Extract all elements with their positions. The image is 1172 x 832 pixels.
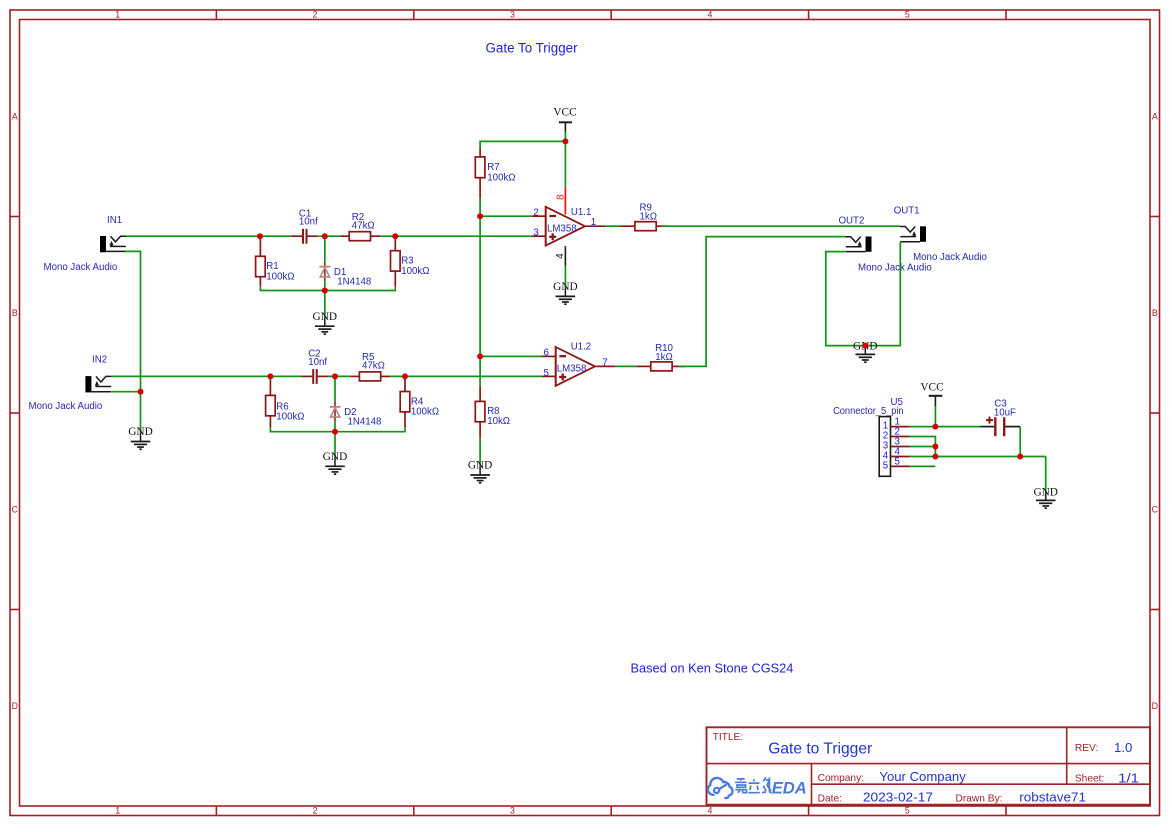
wire bottom rail row2 — [270, 428, 405, 432]
wire C3 down to pin4 net — [1019, 427, 1021, 457]
svg-text:Date:: Date: — [818, 793, 842, 804]
resistor R5 — [350, 352, 390, 381]
op-amp U1.1 LM358 — [532, 187, 605, 266]
svg-text:1: 1 — [591, 217, 596, 228]
node junction pin2 — [477, 213, 483, 219]
ground GND jacks-out — [853, 340, 877, 362]
node junction R4 top — [402, 373, 408, 379]
node junction out-gnd — [862, 343, 868, 349]
svg-text:2: 2 — [533, 207, 538, 218]
svg-text:U1.1: U1.1 — [571, 207, 591, 218]
wire IN1 sleeve down to IN2 sleeve — [125, 251, 140, 391]
svg-text:10nf: 10nf — [308, 357, 327, 368]
logo JLCEDA — [708, 777, 807, 798]
svg-text:C: C — [12, 505, 19, 515]
wire U1.2 out to R10 — [615, 365, 636, 367]
wire rail2 to GND — [334, 432, 336, 458]
svg-text:Company:: Company: — [818, 773, 864, 784]
wire node to U1.1 pin2 — [480, 215, 532, 217]
connector U5 Connector_5_pin — [833, 397, 910, 476]
wire D1 top — [324, 236, 326, 262]
svg-text:10uF: 10uF — [994, 408, 1016, 419]
node junction U5 pin1 VCC — [932, 424, 938, 430]
wire C2 to R5 — [328, 375, 351, 377]
svg-text:LM358: LM358 — [557, 364, 587, 375]
wire D1 to rail — [324, 281, 326, 290]
connector J-OUT2 mono jack — [839, 215, 932, 273]
wire center column to R8 — [479, 356, 481, 386]
svg-text:2: 2 — [313, 806, 318, 816]
svg-text:5: 5 — [895, 457, 901, 468]
svg-text:VCC: VCC — [920, 381, 943, 393]
wire U5 pin1 to C3 — [910, 426, 981, 428]
svg-text:100kΩ: 100kΩ — [411, 407, 439, 418]
svg-text:D: D — [1152, 701, 1158, 711]
node junction R3 top — [392, 233, 398, 239]
svg-text:Based on Ken Stone CGS24: Based on Ken Stone CGS24 — [631, 661, 794, 676]
svg-text:100kΩ: 100kΩ — [401, 266, 429, 277]
power VCC op-amp — [553, 107, 576, 132]
svg-text:A: A — [12, 112, 18, 122]
wire bottom rail row1 — [260, 287, 395, 291]
diode D1 1N4148 — [319, 262, 371, 288]
node junction R6 top — [267, 373, 273, 379]
wire node to U1.2 pin6 — [480, 355, 542, 357]
svg-text:OUT2: OUT2 — [839, 215, 865, 226]
svg-text:Mono Jack Audio: Mono Jack Audio — [858, 263, 932, 274]
wire U5 pin5 stub — [910, 465, 936, 467]
wire VCC to U1.1 pin8 — [564, 132, 566, 187]
svg-text:100kΩ: 100kΩ — [266, 272, 294, 283]
node junction C3-gnd net — [1017, 454, 1023, 460]
svg-text:100kΩ: 100kΩ — [487, 173, 515, 184]
resistor R8 — [475, 386, 510, 437]
wire R2 to U1.1 pin3 — [380, 235, 532, 237]
resistor R2 — [340, 212, 380, 241]
node junction R1 top — [257, 233, 263, 239]
svg-text:1.0: 1.0 — [1114, 740, 1132, 755]
ground GND connector — [1033, 486, 1057, 508]
svg-text:1/1: 1/1 — [1118, 772, 1139, 786]
ground GND U1.1 — [553, 281, 577, 304]
svg-text:4: 4 — [707, 10, 712, 20]
wire R5 to U1.2 pin5 — [390, 375, 542, 377]
capacitor C2 — [301, 349, 328, 384]
svg-text:VCC: VCC — [553, 107, 576, 119]
svg-text:4: 4 — [555, 253, 566, 259]
wire OUT2 sleeve to GND — [826, 252, 866, 346]
svg-text:1: 1 — [115, 10, 120, 20]
resistor R3 — [391, 236, 430, 286]
wire R7 to pin2 node — [479, 198, 481, 216]
wire U5 pin2 down — [910, 437, 936, 457]
node junction U5 pin3 — [932, 444, 938, 450]
svg-text:3: 3 — [533, 228, 539, 239]
svg-text:Drawn By:: Drawn By: — [956, 794, 1003, 805]
svg-text:TITLE:: TITLE: — [713, 732, 744, 743]
svg-text:4: 4 — [707, 806, 712, 816]
wire U5 pin4 to GND — [910, 456, 1046, 458]
ground GND row2 — [323, 451, 347, 474]
node junction rail2-GND — [332, 429, 338, 435]
wire U5 pin3 — [910, 446, 936, 448]
svg-text:Sheet:: Sheet: — [1075, 774, 1104, 785]
wire to GND connector — [1045, 457, 1047, 492]
svg-text:B: B — [12, 308, 18, 318]
wire D2 to rail — [334, 421, 336, 431]
svg-text:C: C — [1152, 505, 1159, 515]
svg-text:47kΩ: 47kΩ — [362, 361, 385, 372]
op-amp U1.2 LM358 — [542, 342, 615, 387]
ground GND R8 — [468, 460, 492, 483]
node junction D1 top — [322, 233, 328, 239]
resistor R7 — [475, 147, 515, 198]
svg-text:Connector_5_pin: Connector_5_pin — [833, 406, 904, 417]
connector J-OUT1 mono jack — [894, 205, 987, 263]
svg-text:10nf: 10nf — [299, 217, 318, 228]
resistor R10 — [636, 343, 686, 371]
wire rail to GND — [324, 291, 326, 318]
node junction VCC — [562, 138, 568, 144]
svg-text:A: A — [1152, 112, 1158, 122]
wire IN1 tip to C1 — [126, 235, 291, 237]
capacitor C3 10uF — [981, 399, 1021, 437]
svg-text:8: 8 — [555, 194, 566, 200]
svg-text:Mono Jack Audio: Mono Jack Audio — [913, 252, 987, 263]
svg-text:IN2: IN2 — [92, 354, 107, 365]
resistor R9 — [621, 203, 670, 231]
svg-text:REV:: REV: — [1075, 743, 1098, 754]
svg-text:OUT1: OUT1 — [894, 205, 920, 216]
svg-text:7: 7 — [602, 358, 607, 369]
ground GND jacks-in — [128, 426, 152, 449]
resistor R6 — [266, 376, 305, 427]
node junction D2 top — [332, 373, 338, 379]
node junction rail-GND — [322, 288, 328, 294]
wire IN2 sleeve to GND — [111, 391, 141, 393]
svg-text:B: B — [1152, 308, 1158, 318]
svg-text:10kΩ: 10kΩ — [487, 416, 510, 427]
wire R10 to OUT2 — [678, 237, 845, 367]
node junction sleeve-GND — [138, 389, 144, 395]
svg-text:1: 1 — [115, 806, 120, 816]
resistor R1 — [256, 236, 295, 286]
wire VCC to U5 pin1 — [934, 406, 936, 426]
power VCC connector — [920, 381, 943, 406]
svg-text:2023-02-17: 2023-02-17 — [863, 791, 933, 805]
svg-text:5: 5 — [544, 368, 550, 379]
connector J-IN1 mono jack — [44, 215, 127, 273]
wire VCC to R7 — [480, 141, 565, 147]
resistor R4 — [400, 376, 439, 427]
diode D2 1N4148 — [330, 402, 382, 428]
wire OUT1 sleeve to GND — [865, 242, 900, 346]
svg-text:IN1: IN1 — [107, 215, 122, 226]
title block — [707, 727, 1151, 804]
node junction pin6 — [477, 353, 483, 359]
svg-text:1N4148: 1N4148 — [348, 417, 382, 428]
wire U1.1 out to R9 — [605, 225, 620, 227]
wire IN2 tip to C2 — [111, 375, 301, 377]
svg-text:3: 3 — [510, 10, 515, 20]
svg-text:5: 5 — [905, 10, 910, 20]
svg-text:6: 6 — [544, 347, 550, 358]
svg-text:Mono Jack Audio: Mono Jack Audio — [29, 401, 103, 412]
svg-text:2: 2 — [313, 10, 318, 20]
svg-text:Gate to Trigger: Gate to Trigger — [768, 740, 872, 757]
wire C1 to R2 — [318, 235, 341, 237]
wire R8 to GND — [479, 438, 481, 467]
svg-text:Your Company: Your Company — [879, 770, 966, 784]
wire center column down — [479, 216, 481, 356]
svg-text:47kΩ: 47kΩ — [352, 221, 375, 232]
svg-text:Mono Jack Audio: Mono Jack Audio — [44, 262, 118, 273]
svg-text:5: 5 — [905, 806, 910, 816]
connector J-IN2 mono jack — [29, 354, 112, 412]
svg-text:LM358: LM358 — [547, 223, 577, 234]
svg-text:5: 5 — [883, 460, 889, 471]
svg-text:Gate To Trigger: Gate To Trigger — [486, 41, 579, 56]
svg-text:1N4148: 1N4148 — [337, 276, 371, 287]
wire D2 top — [334, 376, 336, 402]
capacitor C1 — [291, 208, 318, 243]
svg-text:U1.2: U1.2 — [571, 342, 591, 353]
wire R9 to OUT1 — [662, 225, 899, 227]
svg-text:3: 3 — [510, 806, 515, 816]
svg-text:robstave71: robstave71 — [1019, 791, 1086, 805]
node junction U5 pin4 — [932, 454, 938, 460]
svg-text:100kΩ: 100kΩ — [276, 412, 304, 423]
wire sleeves to GND — [140, 392, 142, 433]
svg-text:EDA: EDA — [772, 778, 807, 797]
wire U1.1 pin4 to GND — [564, 266, 566, 288]
ground GND row1 — [313, 311, 337, 334]
svg-text:D: D — [12, 701, 18, 711]
